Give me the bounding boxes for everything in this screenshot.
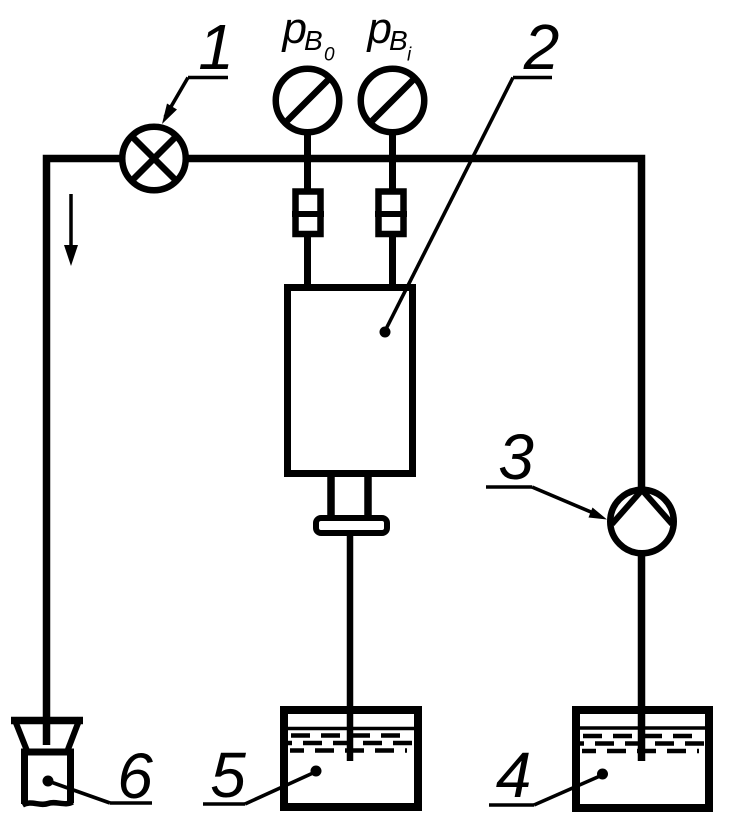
label 4 xyxy=(489,739,608,811)
svg-text:B: B xyxy=(389,25,408,56)
svg-text:5: 5 xyxy=(210,739,246,811)
svg-text:1: 1 xyxy=(198,11,234,83)
label 3 xyxy=(486,421,607,520)
cylinder neck xyxy=(327,477,335,518)
svg-text:3: 3 xyxy=(498,421,534,493)
label 6 xyxy=(43,740,154,812)
svg-text:p: p xyxy=(366,4,392,53)
valve 1 xyxy=(122,127,186,191)
label 2 xyxy=(380,11,560,338)
pump 3 xyxy=(610,490,674,554)
flow arrow down xyxy=(64,194,78,266)
gauge valve fitting 2 xyxy=(375,192,407,235)
wire: thin stem from cylinder into tank 5 xyxy=(347,530,354,761)
tank 4 xyxy=(576,710,709,808)
tank 5 xyxy=(284,710,418,807)
label 5 xyxy=(203,739,322,811)
svg-text:p: p xyxy=(281,4,307,53)
wire: gauge stem 2 xyxy=(389,102,396,288)
label 1 xyxy=(162,11,234,124)
wire: left pipe + top line + right pipe xyxy=(47,159,642,762)
gauge PB0 xyxy=(276,69,340,133)
cylinder 2 xyxy=(288,288,413,474)
svg-text:4: 4 xyxy=(496,739,532,811)
wire: gauge stem 1 xyxy=(304,102,311,288)
svg-text:0: 0 xyxy=(324,45,335,66)
svg-text:2: 2 xyxy=(523,11,560,83)
gauge PBi xyxy=(361,69,425,133)
label pBi xyxy=(366,4,413,66)
cylinder flange xyxy=(316,518,387,533)
funnel 6 xyxy=(11,718,83,805)
label pB0 xyxy=(281,4,336,66)
gauge valve fitting 1 xyxy=(292,192,324,235)
svg-text:B: B xyxy=(304,25,323,56)
